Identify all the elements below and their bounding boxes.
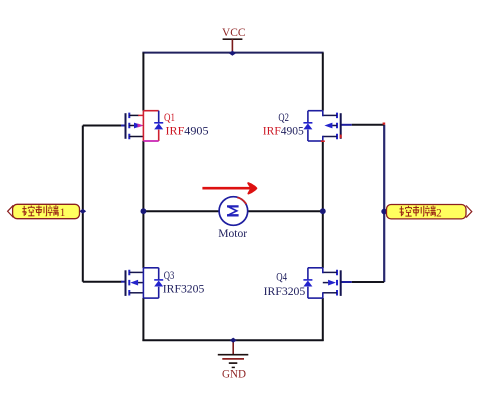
junction at left rail / mid rail	[141, 208, 147, 214]
wire right rail middle (Q2 source to mid rail junction)	[322, 141, 324, 211]
ground GND	[218, 340, 249, 380]
power VCC	[222, 25, 246, 53]
junction at GND / bottom rail	[230, 338, 237, 343]
wire mid rail left segment (junction to motor)	[143, 210, 219, 212]
motor M1	[218, 197, 248, 240]
wire right rail bottom (Q4 source to bottom rail)	[322, 298, 324, 341]
hanzi 端	[425, 206, 436, 217]
hanzi 端	[48, 205, 59, 216]
wire right rail upper (top rail to Q2 drain)	[322, 53, 324, 111]
svg-text:IRF3205: IRF3205	[163, 282, 205, 296]
transistor Q4 IRF3205 (N-channel, gate right)	[264, 268, 341, 298]
svg-text:Motor: Motor	[218, 227, 247, 240]
port 控制端1	[8, 204, 80, 219]
svg-text:Q2: Q2	[278, 112, 289, 124]
transistor Q3 IRF3205 (N-channel, gate left)	[126, 268, 205, 298]
wire Q1 gate lead	[83, 125, 122, 127]
hanzi 制	[36, 205, 47, 216]
wire left gate bus	[82, 126, 84, 282]
wire Q3 gate lead	[83, 281, 122, 283]
wire left rail bottom (Q3 source to bottom rail)	[142, 298, 144, 341]
svg-text:Q1: Q1	[164, 112, 175, 124]
hanzi 控	[400, 206, 412, 216]
svg-text:2: 2	[436, 208, 442, 220]
svg-text:IRF4905: IRF4905	[166, 124, 209, 138]
current direction arrow	[202, 183, 256, 193]
wire left rail lower (mid rail to Q3 drain)	[142, 211, 144, 268]
junction at port1 / left bus	[79, 209, 86, 214]
wire Q4 gate lead	[341, 281, 352, 283]
svg-text:1: 1	[60, 207, 66, 219]
wire right rail lower (mid rail to Q4 drain)	[322, 211, 324, 268]
wire Q2 gate lead	[341, 124, 352, 126]
wire bottom rail	[142, 339, 323, 341]
svg-text:Q4: Q4	[276, 271, 287, 283]
wire left rail middle (Q1 source to mid rail junction)	[142, 141, 144, 211]
hanzi 制	[413, 206, 424, 217]
port 控制端2	[387, 205, 472, 220]
junction at port2 / right bus	[381, 209, 387, 215]
hanzi 控	[22, 206, 34, 216]
junction at right rail / mid rail	[320, 208, 326, 214]
wire right gate bus	[383, 125, 385, 282]
junction at VCC / top rail	[229, 51, 236, 56]
transistor Q2 IRF4905 (P-channel, gate right)	[263, 111, 341, 142]
wire mid rail right segment (motor to junction)	[247, 210, 323, 212]
wire top rail	[142, 52, 323, 54]
svg-text:VCC: VCC	[222, 25, 246, 39]
svg-text:IRF4905: IRF4905	[263, 124, 304, 138]
svg-text:Q3: Q3	[164, 270, 175, 282]
svg-text:GND: GND	[222, 366, 246, 380]
wire left rail upper (top rail to Q1 drain)	[142, 53, 144, 111]
svg-text:IRF3205: IRF3205	[264, 284, 306, 298]
transistor Q1 IRF4905 (P-channel, gate left, highlighted red)	[126, 111, 209, 141]
